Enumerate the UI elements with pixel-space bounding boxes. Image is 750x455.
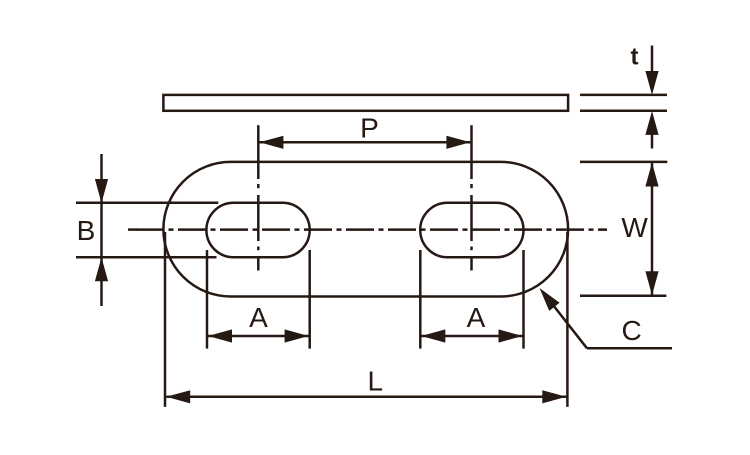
- svg-text:W: W: [621, 212, 648, 243]
- svg-text:C: C: [621, 315, 641, 346]
- svg-text:P: P: [360, 113, 379, 144]
- svg-text:B: B: [77, 215, 96, 246]
- svg-text:L: L: [368, 366, 384, 397]
- svg-text:A: A: [249, 302, 268, 333]
- svg-text:t: t: [631, 44, 639, 71]
- svg-text:A: A: [467, 302, 486, 333]
